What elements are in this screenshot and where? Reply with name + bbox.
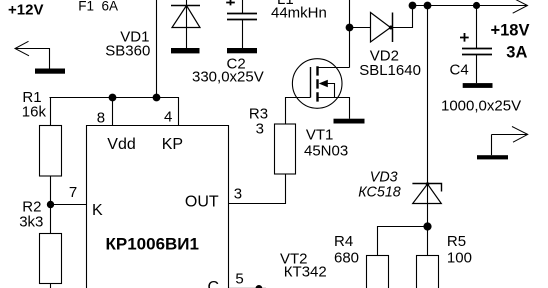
svg-text:Vdd: Vdd [107, 136, 135, 153]
svg-text:680: 680 [334, 249, 359, 266]
svg-text:3: 3 [234, 186, 242, 203]
svg-text:44mkHn: 44mkHn [271, 5, 327, 22]
svg-text:6A: 6A [102, 0, 119, 14]
svg-text:SBL1640: SBL1640 [359, 62, 421, 79]
svg-text:R4: R4 [334, 233, 353, 250]
svg-text:5: 5 [235, 271, 243, 288]
svg-text:SB360: SB360 [105, 43, 150, 60]
svg-text:4: 4 [164, 108, 172, 125]
svg-text:45N03: 45N03 [304, 142, 348, 159]
svg-text:+18V: +18V [491, 21, 530, 39]
svg-text:K: K [92, 202, 103, 219]
svg-text:C4: C4 [450, 62, 469, 79]
svg-text:16k: 16k [22, 104, 47, 121]
svg-text:C: C [208, 279, 220, 288]
svg-text:F1: F1 [78, 0, 94, 14]
svg-text:3: 3 [256, 121, 264, 138]
svg-text:KP: KP [162, 136, 183, 153]
svg-text:КС518: КС518 [358, 185, 400, 201]
svg-text:КР1006ВИ1: КР1006ВИ1 [106, 234, 199, 253]
svg-text:100: 100 [447, 249, 472, 266]
svg-text:VD3: VD3 [370, 169, 398, 185]
svg-text:VT1: VT1 [306, 126, 334, 143]
svg-text:+12V: +12V [8, 1, 43, 18]
svg-text:8: 8 [97, 110, 105, 127]
svg-text:7: 7 [69, 184, 77, 201]
svg-text:OUT: OUT [185, 194, 219, 211]
svg-text:3A: 3A [506, 44, 527, 62]
svg-text:R5: R5 [447, 233, 466, 250]
svg-text:КТ342: КТ342 [284, 263, 327, 280]
svg-text:330,0x25V: 330,0x25V [192, 69, 264, 86]
svg-text:1000,0x25V: 1000,0x25V [441, 98, 521, 115]
svg-text:3k3: 3k3 [19, 213, 43, 230]
